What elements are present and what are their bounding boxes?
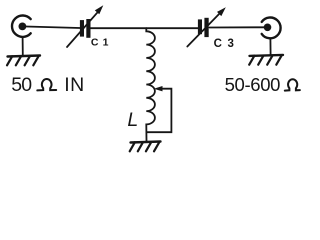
svg-text:C1: C1 (91, 37, 113, 49)
svg-text:50-600: 50-600 (225, 74, 281, 95)
svg-text:IN: IN (64, 74, 84, 96)
svg-text:50: 50 (11, 74, 32, 96)
svg-text:L: L (127, 109, 138, 131)
svg-text:C3: C3 (214, 38, 240, 50)
